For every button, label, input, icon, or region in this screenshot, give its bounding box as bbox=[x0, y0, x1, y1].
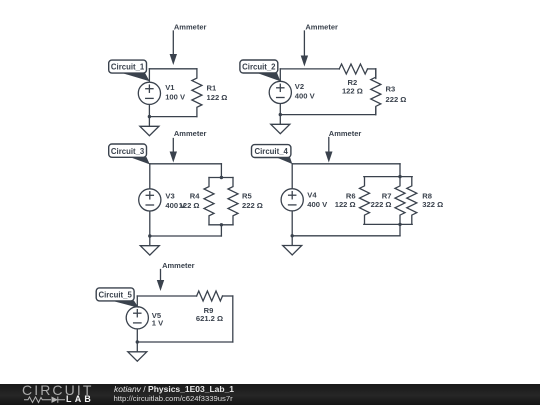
resistor R1 bbox=[192, 69, 227, 117]
wire circuit 5 right bbox=[232, 296, 234, 342]
node circuit 3 ground junction bbox=[148, 234, 151, 237]
ground circuit 3 bbox=[140, 246, 159, 255]
wire circuit 4 bottom bbox=[292, 235, 400, 237]
wire circuit 4 top bbox=[292, 163, 400, 165]
ammeter label circuit 5 bbox=[157, 261, 195, 291]
footer bar bbox=[0, 384, 540, 405]
node circuit 3 bottom junction bbox=[220, 223, 223, 226]
node circuit 3 top junction bbox=[220, 176, 223, 179]
resistor R7 bbox=[371, 177, 405, 225]
voltage source V2 bbox=[269, 81, 315, 103]
wire circuit 5 left bbox=[136, 296, 138, 352]
wire circuit 3 top bbox=[150, 163, 222, 165]
label Circuit_4 bbox=[252, 145, 293, 164]
resistor R6 bbox=[335, 177, 370, 225]
wire circuit 3 bottom bbox=[150, 235, 222, 237]
label Circuit_1 bbox=[109, 60, 150, 81]
label Circuit_2 bbox=[240, 60, 281, 81]
label Circuit_5 bbox=[96, 288, 139, 308]
wire circuit 1 bottom bbox=[149, 116, 197, 118]
resistor R4 bbox=[179, 178, 214, 225]
voltage source V3 bbox=[139, 189, 186, 211]
wire circuit 3 feed bbox=[220, 164, 222, 236]
ground circuit 4 bbox=[283, 246, 302, 255]
resistor R3 bbox=[371, 69, 407, 115]
ammeter label circuit 2 bbox=[301, 23, 338, 67]
wire circuit 3 parallel bottom bar bbox=[209, 224, 233, 226]
footer url bbox=[114, 395, 233, 403]
wire circuit 5 top bbox=[137, 295, 233, 297]
label Circuit_3 bbox=[109, 144, 150, 164]
wire circuit 1 left bbox=[148, 69, 150, 126]
resistor R5 bbox=[228, 178, 263, 225]
ammeter label circuit 1 bbox=[170, 22, 207, 65]
node circuit 5 bottom junction bbox=[136, 340, 139, 343]
wire circuit 3 left bbox=[149, 164, 151, 246]
wire circuit 2 right bbox=[375, 69, 377, 115]
node circuit 4 top junction bbox=[398, 175, 401, 178]
footer title kotianv / Physics_1E03_Lab_1 bbox=[114, 385, 234, 394]
resistor R2 bbox=[339, 64, 367, 96]
wire circuit 5 bottom bbox=[137, 341, 233, 343]
wire circuit 4 parallel bottom bar bbox=[364, 223, 412, 225]
wire circuit 2 top bbox=[280, 68, 376, 70]
CircuitLab logo text CIRCUIT bbox=[22, 383, 93, 397]
ground circuit 1 bbox=[140, 126, 159, 135]
wire circuit 2 left bbox=[279, 69, 281, 124]
node circuit 4 ground junction bbox=[291, 234, 294, 237]
node circuit 4 bottom junction bbox=[398, 223, 401, 226]
wire circuit 2 bottom bbox=[280, 114, 376, 116]
node circuit 2 bottom junction bbox=[279, 113, 282, 116]
resistor R9 bbox=[196, 291, 223, 323]
CircuitLab logo text LAB bbox=[66, 395, 94, 404]
voltage source V4 bbox=[281, 189, 328, 211]
node circuit 1 bottom junction bbox=[148, 115, 151, 118]
voltage source V5 bbox=[126, 307, 164, 329]
resistor R8 bbox=[407, 177, 443, 225]
wire circuit 4 left bbox=[291, 164, 293, 246]
wire circuit 3 parallel top bar bbox=[209, 177, 233, 179]
ammeter label circuit 4 bbox=[325, 129, 361, 163]
ground circuit 2 bbox=[271, 124, 290, 133]
wire circuit 4 parallel top bar bbox=[364, 176, 412, 178]
voltage source V1 bbox=[138, 82, 186, 104]
wire circuit 4 feed bbox=[399, 164, 401, 236]
wire circuit 1 top bbox=[149, 68, 197, 70]
ground circuit 5 bbox=[128, 352, 147, 361]
ammeter label circuit 3 bbox=[170, 129, 207, 163]
